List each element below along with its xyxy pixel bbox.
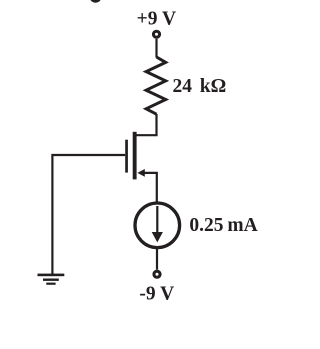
ground: [38, 274, 65, 285]
wire: +9V terminal to resistor top: [155, 39, 157, 58]
svg-text:24 kΩ: 24 kΩ: [173, 76, 227, 97]
resistor 24 kOhm: [146, 57, 166, 114]
wire: source of Q1 to current source: [144, 173, 157, 202]
svg-text:+9 V: +9 V: [137, 9, 176, 30]
current source I1: [135, 203, 180, 248]
node: +9V supply terminal: [153, 31, 159, 37]
svg-text:0.25 mA: 0.25 mA: [189, 215, 257, 236]
transistor Q1 (NMOS, simplified symbol): [125, 132, 145, 180]
wire: gate of Q1 to ground: [52, 155, 125, 275]
svg-text:-9 V: -9 V: [139, 284, 174, 305]
text fragment (cropped caption glyph at top edge): [90, 0, 101, 3]
wire: resistor bottom to drain of Q1: [137, 114, 157, 135]
wire: current source to -9V terminal: [156, 249, 158, 270]
node: -9V supply terminal: [154, 271, 160, 277]
